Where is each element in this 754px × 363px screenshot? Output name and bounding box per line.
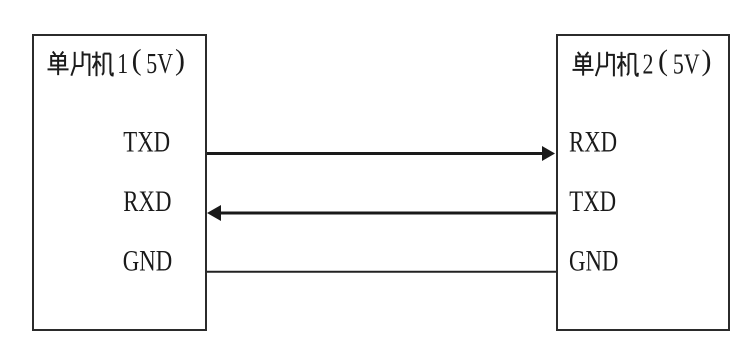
svg-text:2: 2 xyxy=(643,50,654,80)
svg-text:GND: GND xyxy=(123,243,172,277)
svg-text:): ) xyxy=(702,44,712,77)
block U1 (单片机 1) box xyxy=(33,35,206,330)
arrowhead into RXD1 xyxy=(207,205,221,221)
label 单片机 2（5V） header of U2 xyxy=(573,52,638,77)
svg-text:5V: 5V xyxy=(146,50,173,80)
wire GND1 to GND2 xyxy=(207,271,556,273)
block U2 (单片机 2) box xyxy=(557,35,729,330)
svg-text:(: ( xyxy=(132,44,142,77)
svg-text:): ) xyxy=(175,44,185,77)
svg-text:5V: 5V xyxy=(673,50,700,80)
svg-text:RXD: RXD xyxy=(569,124,617,158)
wire TXD1 to RXD2 xyxy=(207,152,545,155)
arrowhead into RXD2 xyxy=(542,146,555,161)
svg-text:TXD: TXD xyxy=(569,184,616,218)
svg-text:RXD: RXD xyxy=(123,184,171,218)
svg-text:1: 1 xyxy=(117,50,128,80)
wire TXD2 to RXD1 xyxy=(220,212,556,215)
label 单片机 1（5V） header of U1 xyxy=(48,51,113,76)
svg-text:TXD: TXD xyxy=(123,124,170,158)
svg-text:GND: GND xyxy=(569,243,618,277)
svg-text:(: ( xyxy=(658,44,668,77)
